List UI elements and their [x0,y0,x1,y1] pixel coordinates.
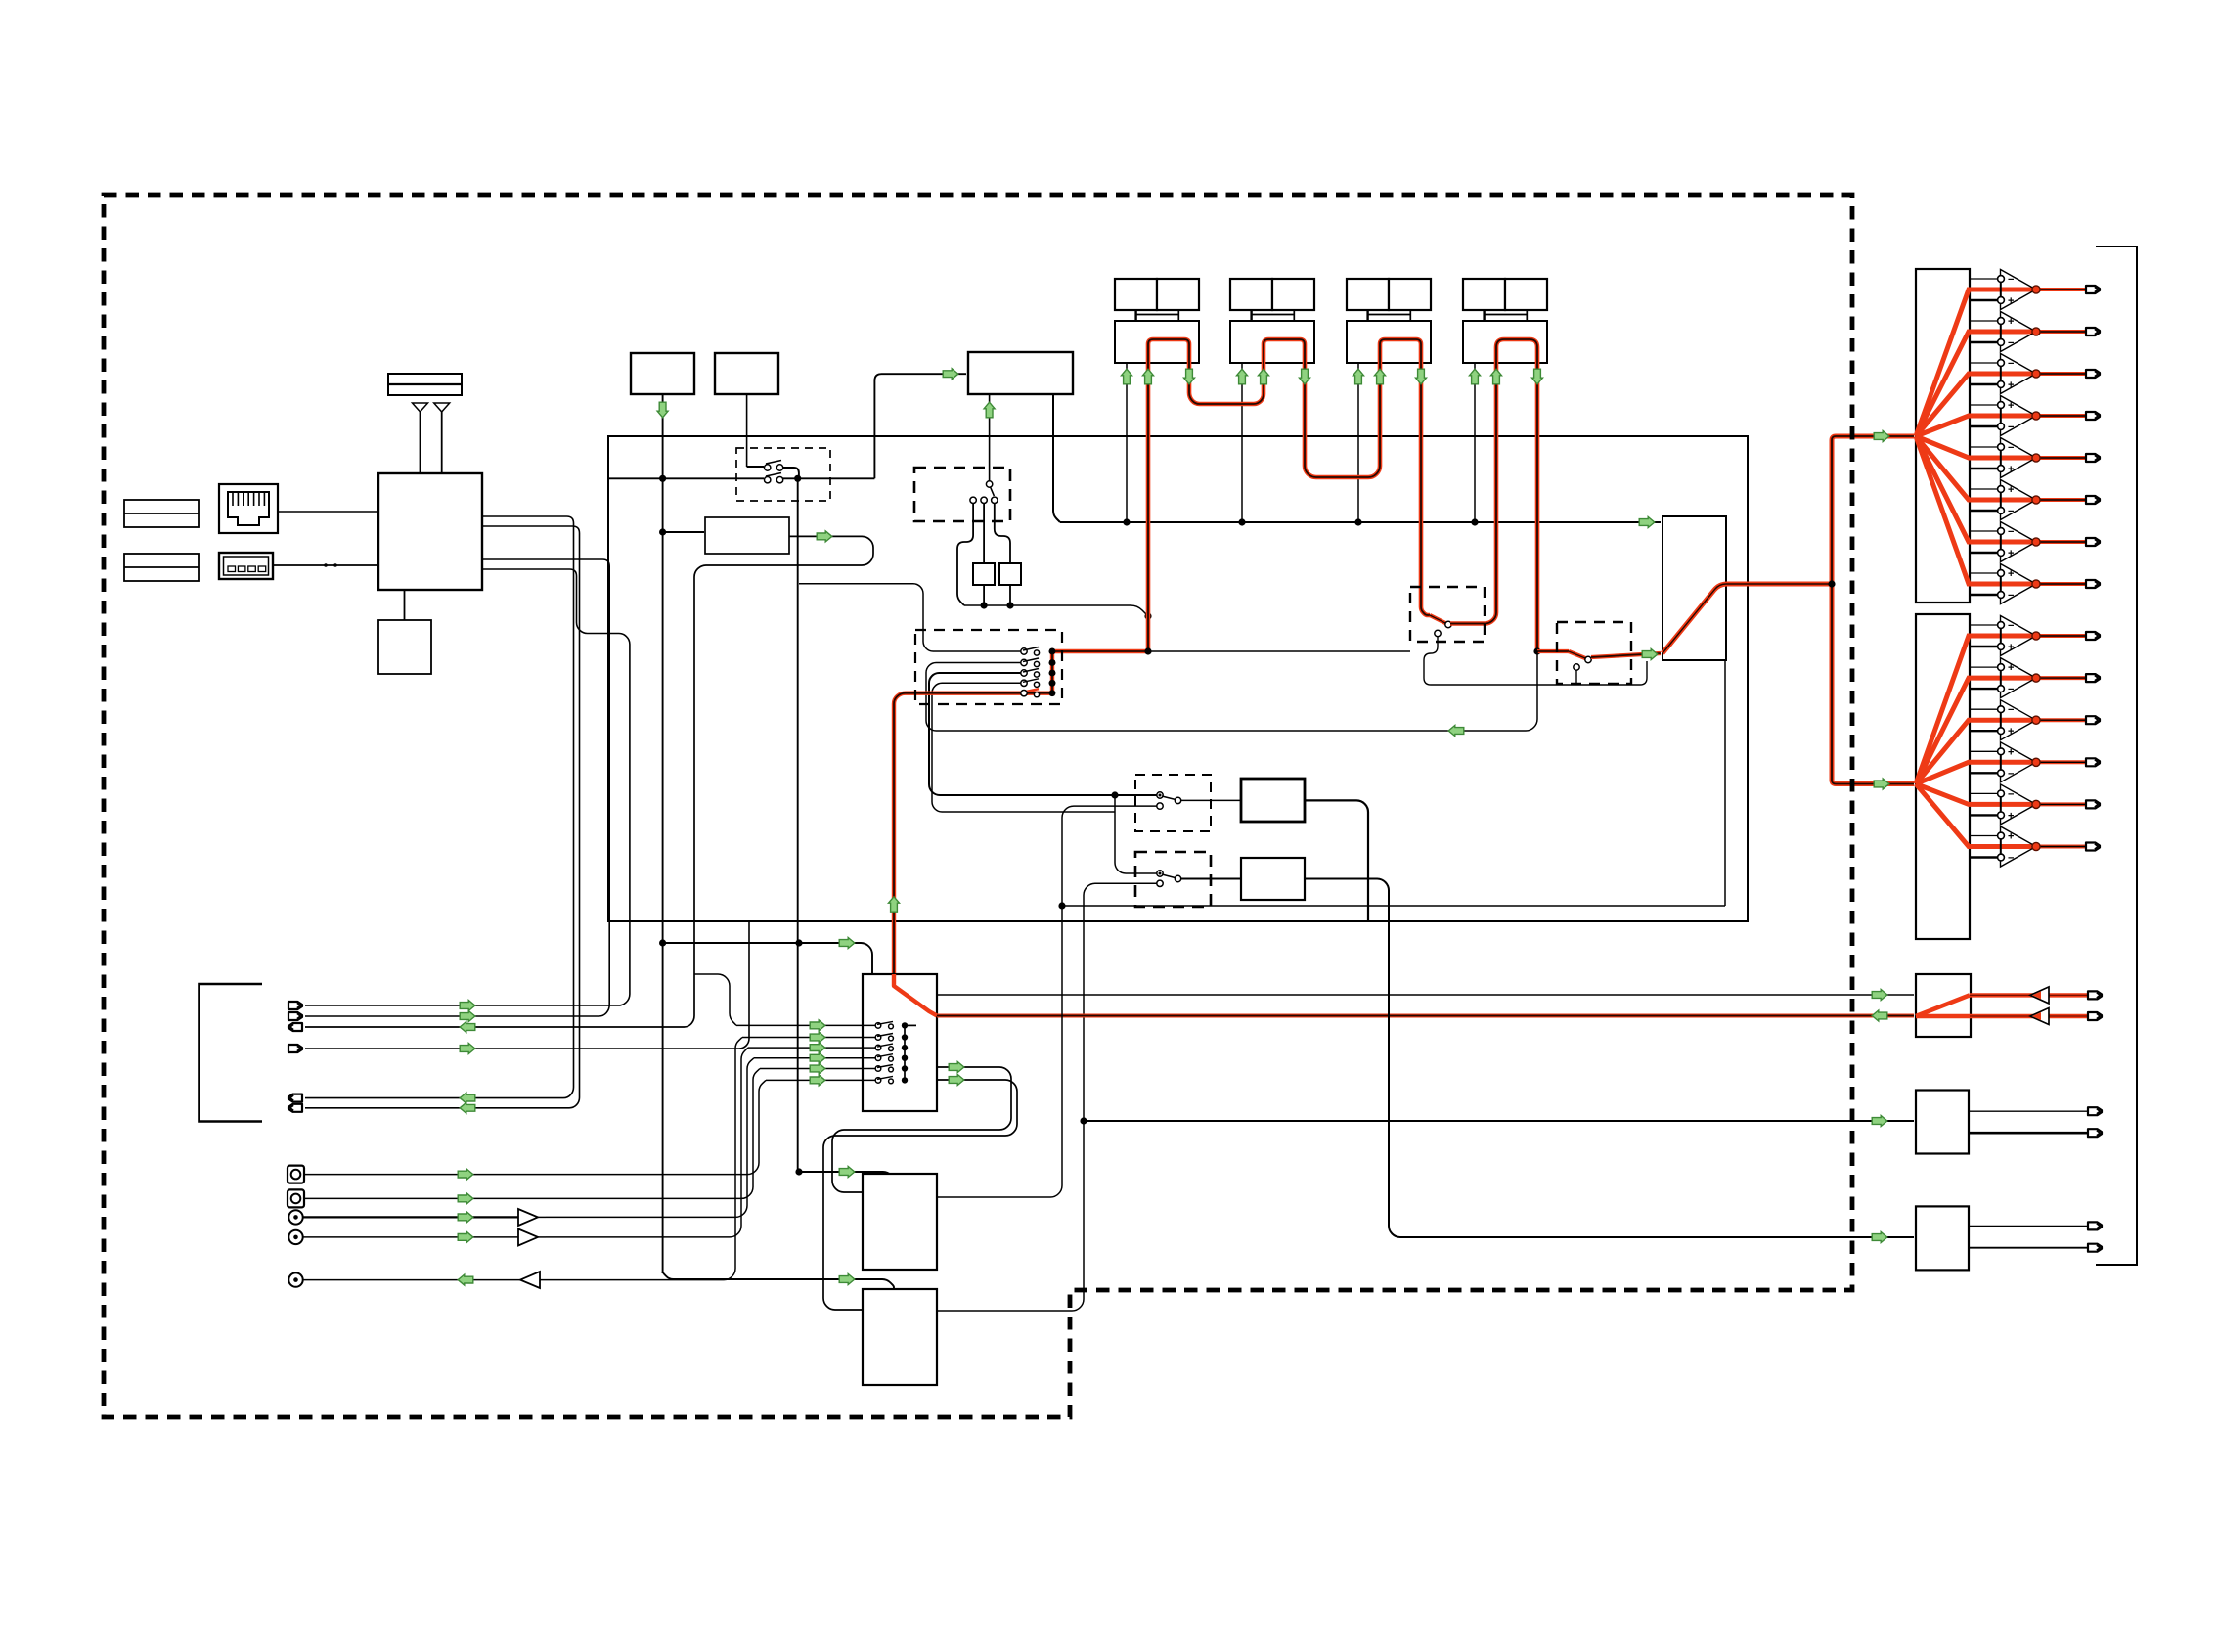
svg-text:+: + [2008,380,2014,391]
svg-text:+: + [2008,831,2014,843]
svg-text:+: + [2008,464,2014,475]
svg-text:−: − [2008,768,2014,780]
svg-text:+: + [2008,295,2014,307]
svg-text:−: − [2008,358,2014,370]
svg-text:+: + [2008,642,2014,653]
svg-text:+: + [2008,316,2014,328]
svg-text:−: − [2008,274,2014,286]
svg-text:−: − [2008,506,2014,517]
svg-text:−: − [2008,853,2014,865]
svg-text:−: − [2008,684,2014,695]
svg-text:−: − [2008,442,2014,454]
svg-text:+: + [2008,746,2014,758]
svg-text:+: + [2008,662,2014,674]
svg-text:−: − [2008,590,2014,602]
svg-text:−: − [2008,788,2014,800]
svg-text:−: − [2008,337,2014,349]
svg-text:+: + [2008,568,2014,580]
svg-text:+: + [2008,810,2014,822]
svg-text:−: − [2008,526,2014,538]
svg-text:+: + [2008,548,2014,559]
svg-text:+: + [2008,726,2014,737]
svg-text:−: − [2008,620,2014,632]
svg-text:−: − [2008,422,2014,433]
svg-text:+: + [2008,484,2014,496]
svg-text:+: + [2008,400,2014,412]
svg-text:−: − [2008,704,2014,716]
